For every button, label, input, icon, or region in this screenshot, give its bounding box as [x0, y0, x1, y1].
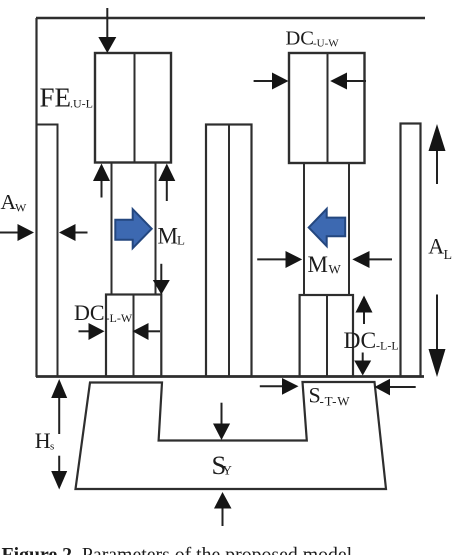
svg-text:M: M — [308, 252, 328, 277]
svg-text:Y: Y — [223, 463, 233, 478]
svg-text:L: L — [444, 248, 453, 263]
svg-text:DC: DC — [286, 28, 314, 50]
svg-text:-L-L: -L-L — [376, 339, 399, 353]
svg-text:.U-L: .U-L — [70, 97, 93, 111]
svg-text:A: A — [428, 233, 444, 258]
svg-text:M: M — [158, 224, 178, 249]
svg-text:DC: DC — [344, 328, 377, 354]
svg-text:-L-W: -L-W — [106, 311, 133, 325]
svg-text:-U-W: -U-W — [313, 38, 339, 50]
svg-text:W: W — [15, 201, 27, 215]
svg-text:H: H — [35, 428, 51, 453]
svg-text:W: W — [329, 261, 342, 276]
svg-text:DC: DC — [74, 300, 105, 325]
svg-text:FE: FE — [40, 82, 72, 112]
svg-text:Figure 2. Parameters of the pr: Figure 2. Parameters of the proposed mod… — [2, 544, 358, 555]
svg-text:-T-W: -T-W — [320, 394, 351, 409]
svg-text:L: L — [177, 233, 185, 248]
svg-text:s: s — [50, 441, 54, 453]
